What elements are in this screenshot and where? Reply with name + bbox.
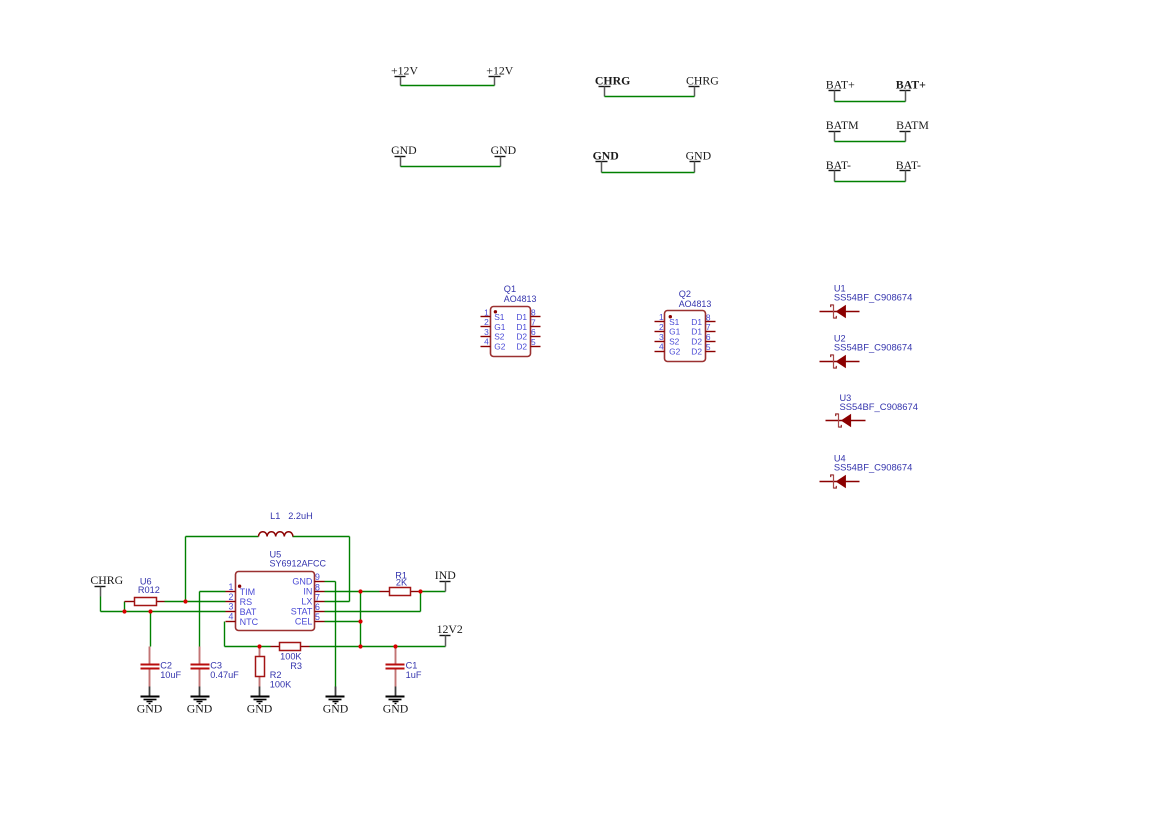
svg-text:CEL: CEL — [295, 616, 313, 626]
svg-text:D1: D1 — [516, 312, 527, 322]
svg-text:6: 6 — [315, 602, 320, 612]
svg-text:C1: C1 — [406, 660, 418, 670]
svg-text:Q1: Q1 — [504, 284, 516, 294]
svg-text:4: 4 — [228, 612, 233, 622]
svg-text:CHRG: CHRG — [595, 74, 630, 88]
svg-text:SS54BF_C908674: SS54BF_C908674 — [834, 463, 913, 473]
svg-text:Q2: Q2 — [679, 289, 691, 299]
svg-text:SS54BF_C908674: SS54BF_C908674 — [834, 293, 913, 303]
svg-text:IN: IN — [303, 587, 312, 597]
svg-text:5: 5 — [706, 342, 711, 352]
svg-text:2: 2 — [484, 317, 489, 327]
svg-text:2: 2 — [659, 322, 664, 332]
svg-text:R3: R3 — [290, 661, 302, 671]
svg-text:GND: GND — [391, 143, 417, 157]
svg-text:NTC: NTC — [240, 617, 259, 627]
svg-text:8: 8 — [315, 582, 320, 592]
svg-text:3: 3 — [228, 602, 233, 612]
svg-text:7: 7 — [315, 592, 320, 602]
svg-text:BAT+: BAT+ — [826, 78, 855, 92]
svg-text:S2: S2 — [494, 332, 505, 342]
svg-text:BATM: BATM — [826, 118, 859, 132]
svg-text:100K: 100K — [270, 680, 292, 690]
svg-text:2K: 2K — [396, 578, 408, 588]
svg-text:CHRG: CHRG — [90, 573, 123, 587]
svg-text:BATM: BATM — [896, 118, 929, 132]
svg-text:SS54BF_C908674: SS54BF_C908674 — [840, 402, 919, 412]
svg-text:1: 1 — [484, 307, 489, 317]
svg-text:D2: D2 — [691, 337, 702, 347]
svg-text:RS: RS — [240, 597, 253, 607]
svg-text:G1: G1 — [494, 322, 506, 332]
svg-text:GND: GND — [137, 702, 163, 716]
svg-text:8: 8 — [706, 312, 711, 322]
svg-text:6: 6 — [531, 327, 536, 337]
svg-text:SS54BF_C908674: SS54BF_C908674 — [834, 343, 913, 353]
svg-text:1: 1 — [659, 312, 664, 322]
svg-text:D1: D1 — [691, 327, 702, 337]
svg-text:BAT-: BAT- — [896, 158, 921, 172]
svg-text:+12V: +12V — [391, 64, 418, 78]
svg-text:GND: GND — [292, 576, 313, 586]
svg-text:10uF: 10uF — [160, 670, 181, 680]
svg-text:5: 5 — [531, 337, 536, 347]
svg-text:7: 7 — [706, 322, 711, 332]
svg-text:D2: D2 — [691, 346, 702, 356]
svg-text:0.47uF: 0.47uF — [210, 670, 239, 680]
svg-text:12V2: 12V2 — [437, 622, 463, 636]
svg-text:2: 2 — [228, 592, 233, 602]
svg-text:7: 7 — [531, 317, 536, 327]
svg-text:GND: GND — [323, 702, 349, 716]
svg-text:8: 8 — [531, 308, 536, 318]
svg-text:C2: C2 — [160, 660, 172, 670]
svg-text:L1: L1 — [270, 511, 280, 521]
svg-text:S2: S2 — [669, 337, 680, 347]
svg-text:G2: G2 — [669, 346, 681, 356]
svg-text:SY6912AFCC: SY6912AFCC — [270, 559, 327, 569]
svg-text:+12V: +12V — [486, 64, 513, 78]
svg-text:5: 5 — [315, 612, 320, 622]
svg-text:D1: D1 — [691, 317, 702, 327]
svg-text:1uF: 1uF — [406, 670, 422, 680]
svg-text:2.2uH: 2.2uH — [288, 511, 313, 521]
svg-text:9: 9 — [315, 572, 320, 582]
svg-text:BAT: BAT — [240, 607, 257, 617]
svg-text:G2: G2 — [494, 341, 506, 351]
svg-text:STAT: STAT — [291, 606, 313, 616]
svg-text:AO4813: AO4813 — [504, 294, 537, 304]
svg-text:D2: D2 — [516, 332, 527, 342]
svg-text:GND: GND — [247, 702, 273, 716]
svg-text:6: 6 — [706, 332, 711, 342]
svg-text:BAT-: BAT- — [826, 158, 851, 172]
svg-text:D1: D1 — [516, 322, 527, 332]
svg-text:S1: S1 — [669, 317, 680, 327]
svg-text:S1: S1 — [494, 312, 505, 322]
svg-text:D2: D2 — [516, 341, 527, 351]
svg-text:IND: IND — [435, 568, 456, 582]
svg-text:C3: C3 — [210, 660, 222, 670]
svg-text:R2: R2 — [270, 670, 282, 680]
svg-text:GND: GND — [383, 702, 409, 716]
svg-text:CHRG: CHRG — [686, 74, 719, 88]
svg-text:GND: GND — [593, 149, 619, 163]
svg-text:4: 4 — [484, 337, 489, 347]
svg-text:GND: GND — [187, 702, 213, 716]
svg-text:GND: GND — [491, 143, 517, 157]
svg-text:1: 1 — [228, 582, 233, 592]
svg-text:R012: R012 — [138, 585, 160, 595]
svg-text:LX: LX — [301, 597, 312, 607]
svg-text:3: 3 — [659, 332, 664, 342]
svg-text:GND: GND — [686, 149, 712, 163]
svg-text:AO4813: AO4813 — [679, 299, 712, 309]
svg-text:3: 3 — [484, 327, 489, 337]
svg-text:TIM: TIM — [240, 587, 256, 597]
svg-text:100K: 100K — [280, 652, 302, 662]
svg-text:BAT+: BAT+ — [896, 78, 926, 92]
svg-text:G1: G1 — [669, 327, 681, 337]
svg-text:4: 4 — [659, 342, 664, 352]
